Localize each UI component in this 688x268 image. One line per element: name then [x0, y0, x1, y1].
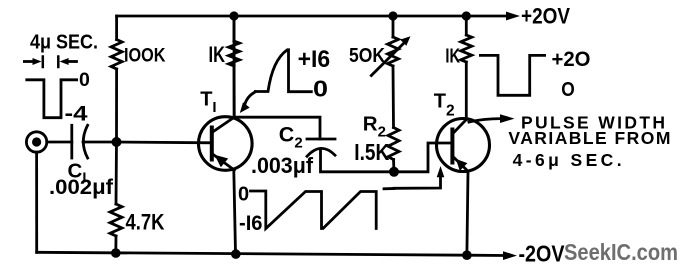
connector J1 center pin — [32, 137, 41, 146]
wire 4.7K bottom to bottom rail — [114, 236, 117, 253]
wire base node to T1 base — [117, 141, 213, 145]
svg-text:5OK: 5OK — [349, 45, 385, 67]
wire T2 collector up through 1K — [465, 62, 468, 120]
node top rail junction at 50K — [388, 11, 397, 20]
svg-text:-2OV: -2OV — [519, 241, 566, 267]
wire top rail to left 1K — [233, 16, 236, 41]
capacitor C1 flat plate — [70, 125, 73, 158]
transistor Q T2 circle — [437, 119, 490, 172]
annotation 4usec right arrowhead — [60, 58, 69, 65]
annotation output pulse waveform right — [480, 55, 544, 95]
transistor T2 emitter stroke — [452, 156, 468, 171]
svg-text:-4: -4 — [65, 103, 88, 126]
node junction R2/C2/T2 base — [389, 167, 399, 177]
annotation sawtooth waveform path — [251, 191, 377, 229]
node bottom rail junction at 4.7K — [111, 248, 121, 258]
resistor R 4.7K — [110, 204, 122, 236]
svg-text:-I6: -I6 — [239, 212, 263, 235]
transistor T2 emitter arrow (PNP) — [456, 159, 468, 171]
wire 1K left to T1 collector — [233, 66, 236, 117]
annotation arrow to T2 shaft — [394, 176, 441, 188]
wire top +20V rail — [117, 15, 507, 18]
-20V rail arrowhead — [503, 251, 517, 260]
wire junction to T2 base — [394, 143, 452, 172]
svg-text:0: 0 — [313, 76, 328, 102]
annotation arrow to T1 collector tail — [245, 92, 255, 105]
wire 50K to R2 — [392, 66, 395, 128]
node bottom rail junction at T1 emitter — [231, 249, 241, 259]
transistor T2 base bar — [450, 130, 454, 163]
resistor R2 1.5K — [388, 128, 399, 160]
wire T2 emitter down to bottom rail — [467, 171, 468, 254]
resistor R 1K right — [461, 35, 472, 62]
svg-text:+2OV: +2OV — [521, 4, 570, 29]
svg-text:VARIABLE FROM: VARIABLE FROM — [508, 128, 670, 148]
wire top rail to 50K — [392, 16, 395, 37]
node bottom rail junction at T2 emitter — [462, 250, 472, 260]
svg-text:+2O: +2O — [552, 47, 591, 71]
annotation 4usec left arrowhead — [33, 58, 42, 65]
svg-text:IK: IK — [209, 42, 226, 67]
wire T1 collector to C2 top — [234, 117, 320, 139]
wire R2 to junction — [392, 160, 395, 172]
resistor R 100K — [111, 40, 122, 70]
annotation output arrow from T2 collector shaft — [469, 119, 501, 122]
svg-text:IK: IK — [445, 45, 460, 68]
svg-text:4.7K: 4.7K — [126, 210, 165, 235]
wire junction down to 4.7K — [115, 142, 118, 204]
transistor T1 collector stroke — [212, 117, 234, 132]
svg-text:+I6: +I6 — [298, 46, 331, 73]
transistor T1 base bar — [210, 128, 214, 160]
wire C2 bottom to R2 junction — [321, 149, 395, 172]
svg-text:IOOK: IOOK — [124, 46, 166, 67]
annotation 4usec right arrow shaft — [68, 60, 77, 63]
connector J1 input jack outer ring — [26, 132, 46, 152]
svg-text:.002μf: .002μf — [49, 175, 114, 199]
svg-text:I.5K: I.5K — [354, 139, 389, 165]
transistor T1 emitter arrow (PNP) — [215, 155, 229, 167]
svg-text:4μ SEC.: 4μ SEC. — [30, 32, 98, 54]
annotation 4usec right tick — [57, 57, 60, 68]
transistor T1 emitter stroke — [212, 154, 235, 171]
wire bottom -20V rail — [37, 252, 504, 255]
resistor R 1K left — [229, 41, 240, 66]
annotation arrow to T2 head — [437, 166, 445, 177]
wire T1 collector up to top rail — [233, 16, 236, 117]
capacitor C2 curved plate — [307, 148, 335, 156]
transistor T2 collector stroke — [452, 120, 466, 135]
transistor Q T1 circle — [199, 117, 253, 171]
node top rail junction at right 1K — [462, 11, 471, 20]
wire connector to C1 — [47, 141, 72, 144]
annotation input pulse waveform — [27, 80, 77, 118]
node top rail junction at T1 collector — [229, 11, 238, 20]
+20V rail arrowhead — [506, 12, 520, 21]
wire 100K bottom to base node — [115, 69, 118, 142]
50K variable arrowhead — [400, 36, 410, 46]
annotation 4usec left tick — [42, 57, 45, 68]
resistor R 50K variable — [388, 37, 399, 66]
annotation output arrowhead — [500, 114, 515, 123]
50K variable arrow shaft — [371, 44, 403, 76]
wire left column from rail corner to 100K — [115, 16, 118, 40]
svg-text:0: 0 — [79, 69, 90, 91]
wire C1 to junction — [83, 141, 117, 144]
node junction C1/100K/4.7K — [112, 137, 122, 147]
annotation collector waveform ramp curve — [255, 50, 311, 92]
wire T1 emitter down to bottom rail — [234, 170, 236, 253]
svg-text:O: O — [561, 78, 575, 101]
capacitor C2 flat plate — [307, 138, 335, 141]
svg-text:SeekIC.com: SeekIC.com — [564, 239, 678, 265]
capacitor C1 curved plate — [83, 125, 87, 158]
svg-text:0: 0 — [238, 184, 249, 206]
svg-text:.003μf: .003μf — [251, 153, 313, 178]
wire connector down to bottom rail — [35, 152, 38, 252]
annotation arrow to T1 collector head — [240, 102, 250, 113]
svg-text:4-6μ SEC.: 4-6μ SEC. — [513, 150, 622, 170]
wire 1K right to top rail — [465, 16, 468, 35]
annotation 4usec left arrow shaft — [24, 60, 34, 63]
annotation sawtooth continuation dash — [384, 187, 394, 190]
